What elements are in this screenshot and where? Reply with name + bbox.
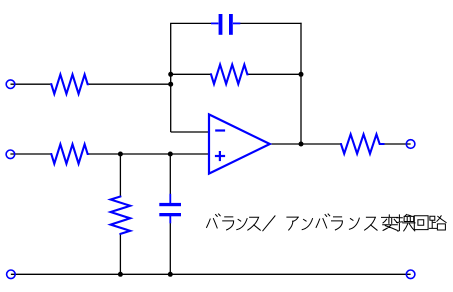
resistor R2 (input 2) [50,144,89,163]
wire: top feedback right of C1 [240,22,302,24]
terminal: bottom right ground [406,270,415,279]
wire: bottom rail [11,273,411,275]
resistor R6 (output) [340,134,384,153]
node: input1 / left column junction [168,82,173,87]
glyph n 3 [349,218,359,229]
glyph su 1 [248,217,260,230]
node: output junction [299,142,304,147]
wire: R4 branch upper [119,154,121,197]
wire: R1 to node A [89,83,171,85]
wire: R2 to non-inverting input [89,153,209,155]
terminal: output [406,140,415,149]
wire: op-amp output to R3 [270,143,342,145]
wire: C2 branch upper [169,154,171,195]
wire: input1 terminal to R1 [11,83,51,85]
glyph kai (turn) [414,216,428,230]
resistor R3 (shunt to ground) [111,196,131,235]
glyph su 2 [365,217,378,230]
wire: right vertical feedback column [300,23,302,144]
terminal: input 1 [6,80,15,89]
label: バランス／アンバランス変換回路 (hand-drawn glyph strokes) [207,214,447,231]
plus symbol [215,155,225,157]
op-amp U1 [209,114,270,173]
glyph ra 1 [223,217,234,230]
node: C2 branch on input2 row [168,152,173,157]
terminal: input 2 [6,150,15,159]
capacitor C2 (shunt to ground) [159,194,181,224]
wire: feedback resistor row right lead [247,73,301,75]
node: R3 branch on input2 row [118,152,123,157]
wire: C2 branch lower [169,223,171,275]
wire: inverting input stub [171,131,209,133]
glyph slash [263,216,275,231]
wire: feedback resistor row left lead [171,73,212,75]
glyph n 2 [302,219,312,230]
resistor R5 (feedback) [210,65,248,84]
wire: top feedback left of C1 [170,22,212,24]
glyph ro (road) [429,216,446,230]
node: feedback resistor / right column junction [299,72,304,77]
wire: left vertical node column [170,23,172,132]
node: R3 branch on bottom rail [118,272,123,277]
glyph ba 2 [316,214,330,228]
glyph n 1 [237,219,247,230]
resistor R1 (input 1) [50,75,89,94]
glyph ra 2 [332,217,343,230]
wire: R3 to output terminal [379,143,410,145]
wire: input2 terminal to R2 [10,153,50,155]
glyph kan (exchange) [397,215,416,232]
glyph a [287,217,299,230]
terminal: bottom left ground [7,270,16,279]
minus symbol [215,129,225,131]
capacitor C1 (feedback, top) [211,14,240,35]
node: feedback resistor / left column junction [168,72,173,77]
glyph ba 1 [207,214,221,228]
node: C2 branch on bottom rail [168,272,173,277]
wire: R4 branch lower [119,233,121,274]
glyph hen (change) [382,215,398,231]
